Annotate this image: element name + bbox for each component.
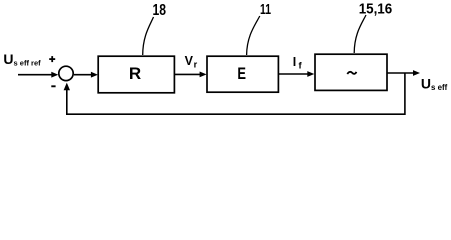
svg-text:R: R (129, 64, 141, 83)
leader line 18 (143, 17, 154, 55)
svg-text:15,16: 15,16 (359, 2, 393, 18)
summing junction (59, 66, 73, 80)
svg-text:18: 18 (153, 2, 167, 19)
minus sign at feedback input (51, 85, 55, 87)
wire: R to E with Vr (175, 73, 201, 75)
tilde symbol (347, 72, 356, 74)
leader line 15,16 (354, 15, 366, 53)
block R (regulator) (98, 56, 174, 93)
wire: summing junction to R (74, 74, 92, 76)
plus sign at summing input (49, 56, 55, 62)
svg-text:11: 11 (260, 1, 271, 18)
wire: output (387, 72, 414, 74)
block E (exciter) (207, 56, 278, 92)
wire: feedback path (67, 73, 405, 114)
svg-text:E: E (237, 64, 246, 83)
block generator ~ (315, 54, 387, 90)
leader line 11 (247, 16, 260, 55)
wire: input line to summing junction (18, 74, 53, 76)
wire: E to generator with If (278, 73, 308, 75)
